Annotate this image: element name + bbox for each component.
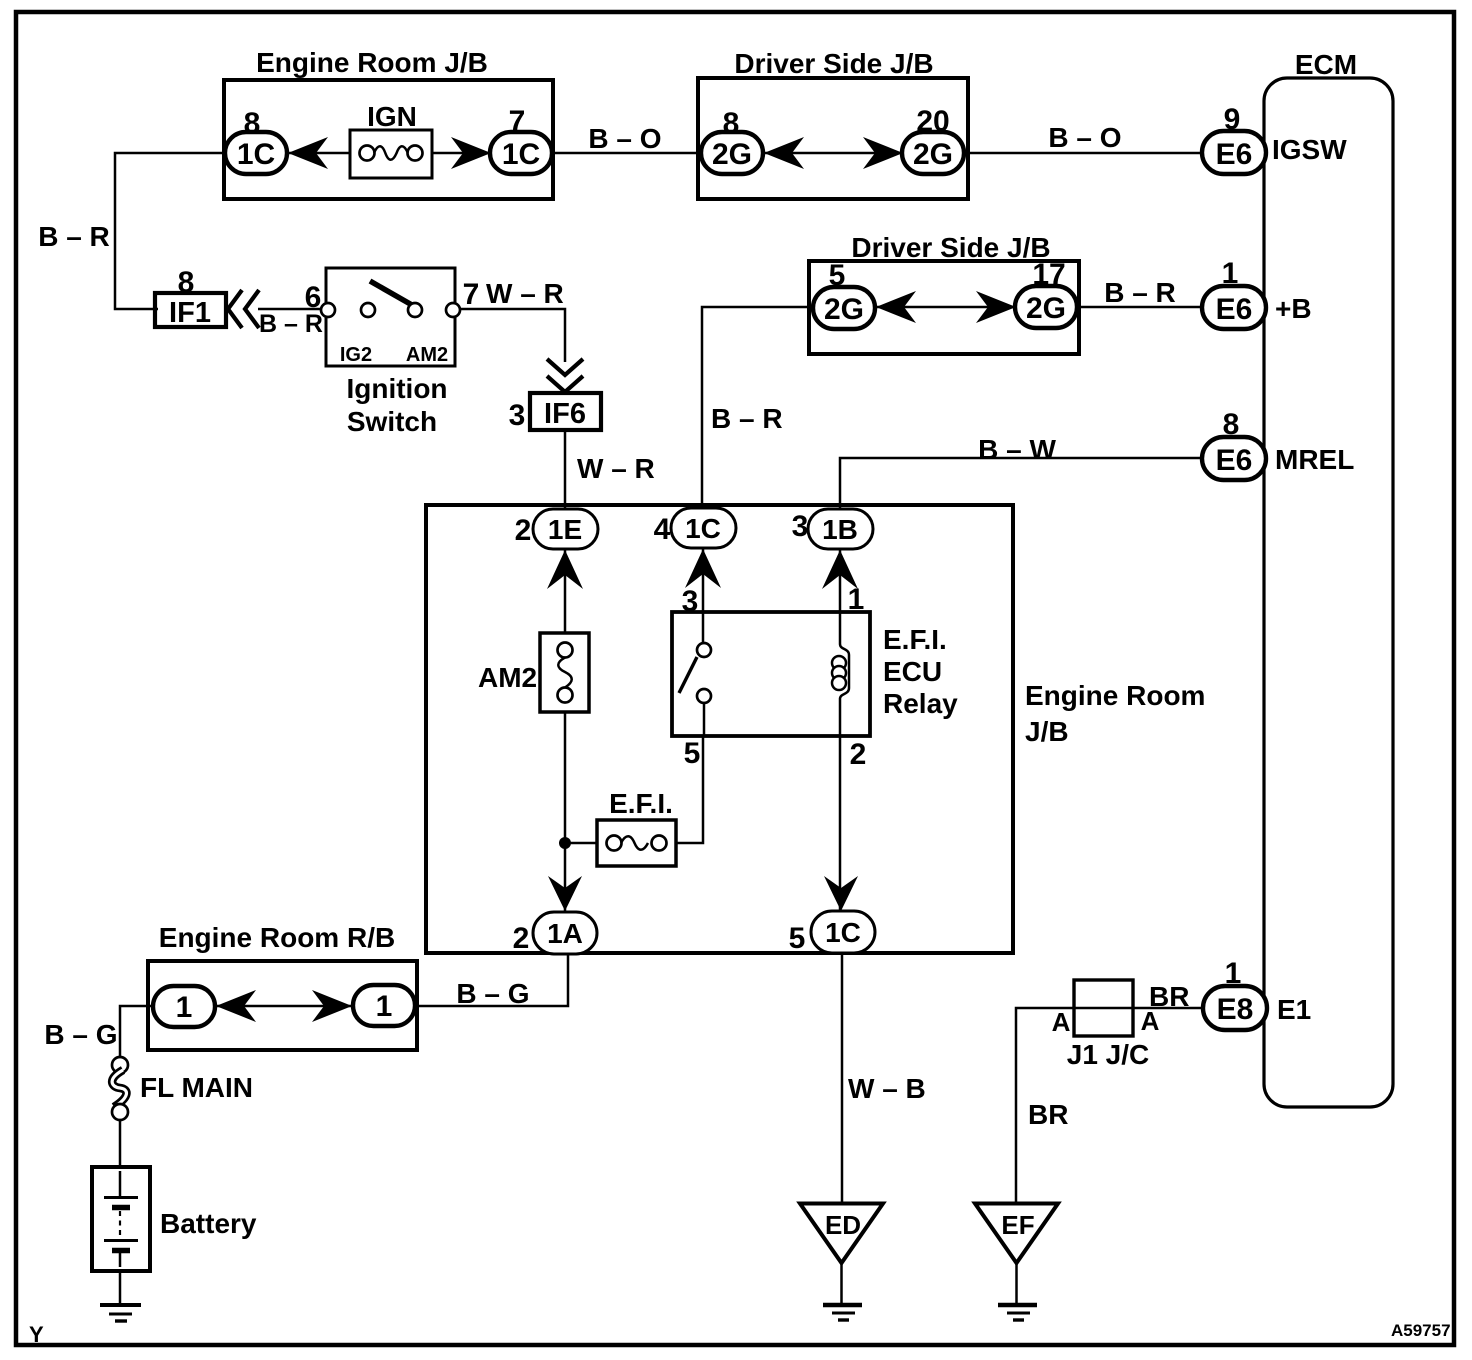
wire B-O (1C7 to 2G8)	[552, 152, 703, 155]
arrow (male, right) in Engine Room J/B	[451, 137, 491, 169]
arrow up into 1E	[547, 550, 583, 589]
arrow up into 1C4	[685, 549, 721, 588]
svg-text:1: 1	[1222, 257, 1239, 290]
wire (relay switch inside)	[703, 703, 706, 736]
svg-text:1C: 1C	[825, 917, 861, 948]
svg-text:4: 4	[654, 513, 671, 546]
fuse IGN	[350, 101, 432, 178]
svg-text:B – G: B – G	[456, 978, 529, 1009]
wire B-G (left of R/B to FL MAIN)	[120, 1006, 155, 1057]
svg-text:2G: 2G	[824, 293, 864, 326]
arrow (female, left) in Engine Room J/B	[288, 137, 328, 169]
svg-text:5: 5	[789, 922, 806, 955]
connector 2G pin 5	[813, 259, 875, 329]
svg-text:ECM: ECM	[1295, 49, 1357, 80]
svg-text:IF1: IF1	[169, 297, 211, 329]
svg-text:E6: E6	[1216, 293, 1253, 326]
svg-text:ED: ED	[825, 1210, 861, 1240]
svg-text:E.F.I.: E.F.I.	[609, 788, 673, 819]
ground point EF	[975, 1204, 1058, 1321]
svg-text:1: 1	[376, 990, 393, 1023]
ECM terminal E6 pin 1 +B	[1202, 257, 1312, 329]
svg-text:1: 1	[848, 583, 865, 616]
double chevron (connector mate) after IF1	[228, 290, 259, 328]
svg-text:A: A	[1052, 1007, 1071, 1037]
svg-text:Ignition: Ignition	[346, 373, 447, 404]
connector 1A pin 2	[513, 912, 597, 955]
svg-text:7: 7	[463, 278, 480, 311]
svg-text:IF6: IF6	[544, 398, 586, 430]
svg-text:E6: E6	[1216, 138, 1253, 171]
svg-text:1A: 1A	[547, 918, 583, 949]
connector 1C pin 7	[490, 105, 552, 174]
svg-text:Relay: Relay	[883, 688, 958, 719]
svg-text:E.F.I.: E.F.I.	[883, 624, 947, 655]
svg-text:FL MAIN: FL MAIN	[140, 1072, 253, 1103]
connector 1C pin 4	[654, 508, 736, 548]
svg-text:EF: EF	[1001, 1210, 1034, 1240]
svg-text:J1 J/C: J1 J/C	[1067, 1039, 1150, 1070]
ECM module	[1264, 49, 1393, 1107]
svg-text:2: 2	[850, 738, 867, 771]
svg-text:B – R: B – R	[1104, 277, 1176, 308]
svg-text:B – O: B – O	[1048, 122, 1121, 153]
arrow (male, right) in second Driver Side J/B	[976, 291, 1016, 323]
junction connector J1 J/C	[1052, 980, 1190, 1070]
connector 1C pin 8	[225, 107, 287, 174]
svg-text:MREL: MREL	[1275, 444, 1354, 475]
wire W-B (1C5 down to ED ground)	[841, 954, 844, 1204]
svg-text:17: 17	[1032, 258, 1065, 291]
svg-text:1C: 1C	[502, 138, 540, 171]
wire inside Driver Side J/B (2G8 to 2G20)	[762, 152, 904, 155]
svg-text:E6: E6	[1216, 444, 1253, 477]
arrow (female, left) in second Driver Side J/B	[876, 291, 916, 323]
connector IF6 pin 3	[509, 393, 601, 432]
connector 1B pin 3	[792, 509, 873, 549]
arrow down into 1C5	[824, 876, 858, 911]
svg-text:9: 9	[1224, 103, 1241, 136]
svg-text:Engine Room: Engine Room	[1025, 680, 1205, 711]
connector 2G pin 17	[1015, 258, 1077, 328]
junction box Engine Room J/B (main)	[426, 505, 1205, 953]
wire B-R (2G5 down to 1C4)	[702, 307, 813, 510]
svg-text:W – R: W – R	[577, 453, 655, 484]
svg-text:2: 2	[513, 922, 530, 955]
ground point ED	[800, 1204, 883, 1321]
wire through J1 J/C to E8	[1076, 1007, 1204, 1010]
connector 2G pin 20	[902, 105, 964, 174]
svg-text:W – B: W – B	[848, 1073, 926, 1104]
arrow down into 1A	[548, 876, 582, 911]
svg-text:8: 8	[723, 107, 740, 140]
junction box Engine Room J/B (top)	[224, 47, 553, 199]
svg-text:2G: 2G	[712, 138, 752, 171]
connector 1E pin 2	[515, 509, 598, 549]
wire (battery to ground)	[119, 1271, 122, 1304]
ECM terminal E6 pin 8 MREL	[1202, 408, 1354, 480]
svg-text:Engine Room J/B: Engine Room J/B	[256, 47, 488, 78]
svg-text:Engine Room R/B: Engine Room R/B	[159, 922, 395, 953]
wire (FL MAIN to battery)	[119, 1120, 122, 1168]
svg-text:B – R: B – R	[38, 221, 110, 252]
fuse AM2	[478, 633, 589, 712]
svg-text:2: 2	[515, 514, 532, 547]
double chevron (connector mate) above IF6	[547, 359, 583, 392]
svg-text:B – R: B – R	[259, 310, 323, 338]
fuse E.F.I.	[597, 788, 676, 866]
svg-text:BR: BR	[1149, 981, 1189, 1012]
arrow (male, right) in Driver Side J/B	[863, 137, 903, 169]
svg-text:Driver Side J/B: Driver Side J/B	[734, 48, 933, 79]
wire B-R (2G17 to ECM +B)	[1077, 306, 1204, 309]
svg-text:1C: 1C	[685, 513, 721, 544]
connector 2G pin 8	[701, 107, 763, 174]
svg-text:3: 3	[682, 585, 699, 618]
svg-text:Y: Y	[29, 1322, 44, 1347]
svg-text:AM2: AM2	[478, 662, 537, 693]
relay E.F.I. ECU Relay	[672, 583, 958, 771]
svg-text:Battery: Battery	[160, 1208, 257, 1239]
svg-text:6: 6	[305, 281, 322, 314]
junction box Engine Room R/B	[148, 922, 417, 1050]
wire inside Engine Room R/B	[214, 1005, 355, 1008]
svg-text:3: 3	[792, 510, 809, 543]
junction node (AM2 line to E.F.I. fuse)	[559, 837, 597, 849]
connector 1C pin 5	[789, 911, 875, 955]
svg-text:3: 3	[509, 399, 526, 432]
svg-text:1: 1	[1225, 957, 1242, 990]
svg-text:ECU: ECU	[883, 656, 942, 687]
wire B-O (2G20 to ECM IGSW)	[964, 152, 1204, 155]
connector IF1 pin 8	[155, 266, 226, 329]
svg-text:E1: E1	[1277, 994, 1311, 1025]
svg-text:B – W: B – W	[978, 434, 1056, 465]
wire (relay pin 5 to E.F.I. fuse)	[676, 736, 703, 843]
connector 1 (left) in R/B	[153, 986, 215, 1027]
svg-text:8: 8	[1223, 408, 1240, 441]
ECM terminal E6 pin 9 IGSW	[1202, 103, 1347, 174]
svg-text:Driver Side J/B: Driver Side J/B	[851, 232, 1050, 263]
svg-text:BR: BR	[1028, 1099, 1068, 1130]
svg-text:+B: +B	[1275, 293, 1312, 324]
wire W-R (IF6 down to 1E)	[564, 430, 567, 510]
ground (battery)	[100, 1305, 141, 1321]
svg-text:IGSW: IGSW	[1272, 134, 1347, 165]
svg-text:J/B: J/B	[1025, 716, 1069, 747]
arrow (male, right) in R/B	[312, 990, 352, 1022]
arrow (female, left) in Driver Side J/B	[764, 137, 804, 169]
svg-text:8: 8	[178, 266, 195, 299]
svg-text:IG2: IG2	[340, 344, 372, 366]
svg-text:1: 1	[176, 991, 193, 1024]
svg-text:IGN: IGN	[367, 101, 417, 132]
svg-text:5: 5	[829, 259, 846, 292]
ignition switch	[305, 268, 480, 437]
svg-text:E8: E8	[1217, 993, 1254, 1026]
svg-text:1E: 1E	[548, 514, 582, 545]
svg-text:AM2: AM2	[406, 344, 448, 366]
junction box Driver Side J/B (top)	[698, 48, 968, 199]
wire inside Engine Room J/B (IGN fuse to 1C7)	[432, 152, 492, 155]
wire (1C4 down to relay pin 3)	[702, 546, 705, 643]
svg-text:B – R: B – R	[711, 403, 783, 434]
svg-text:2G: 2G	[913, 138, 953, 171]
svg-text:2G: 2G	[1026, 292, 1066, 325]
wire inside second Driver Side J/B (2G5 to 2G17)	[874, 306, 1017, 309]
svg-text:5: 5	[684, 737, 701, 770]
wire B-G (1A down to Engine Room R/B)	[417, 954, 568, 1006]
wire (1B down to relay pin 1 coil)	[840, 547, 849, 912]
fusible link FL MAIN	[112, 1057, 253, 1120]
svg-text:A59757: A59757	[1391, 1321, 1451, 1340]
wire (1E down through AM2 fuse to 1A)	[564, 547, 567, 912]
wire inside Engine Room J/B (1C8 to IGN fuse)	[285, 152, 350, 155]
svg-text:20: 20	[916, 105, 949, 138]
wire W-R (ignition switch AM2 to IF6)	[460, 309, 565, 362]
svg-text:7: 7	[509, 105, 526, 138]
arrow up into 1B	[822, 550, 858, 589]
wire B-W (1B3 up to ECM MREL)	[840, 458, 1204, 510]
wire BR (EF ground up to J1 J/C)	[1016, 1008, 1076, 1204]
battery	[92, 1167, 257, 1271]
svg-text:W – R: W – R	[486, 278, 564, 309]
svg-text:1C: 1C	[237, 138, 275, 171]
svg-text:8: 8	[244, 107, 261, 140]
svg-text:1B: 1B	[822, 514, 858, 545]
junction box Driver Side J/B (second)	[809, 232, 1079, 354]
wire B-R from connector 1C(8) to IF1	[115, 153, 226, 309]
svg-text:Switch: Switch	[347, 406, 437, 437]
svg-text:B – G: B – G	[44, 1019, 117, 1050]
svg-text:B – O: B – O	[588, 123, 661, 154]
arrow (female, left) in R/B	[216, 990, 256, 1022]
ECM terminal E8 pin 1 E1	[1203, 957, 1311, 1030]
wire B-R (IF1 to ignition switch)	[258, 308, 322, 311]
connector 1 (right) in R/B	[353, 985, 415, 1026]
